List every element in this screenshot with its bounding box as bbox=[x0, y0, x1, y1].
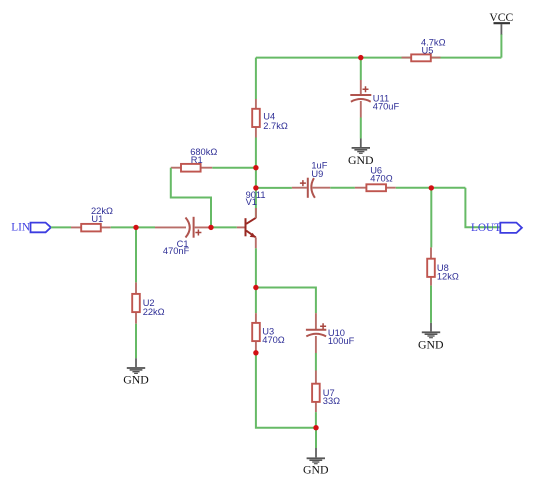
svg-text:VCC: VCC bbox=[489, 11, 513, 24]
label U7 values bbox=[323, 388, 340, 406]
capacitor U9 bbox=[292, 178, 330, 198]
label V1 values bbox=[246, 190, 266, 207]
svg-text:GND: GND bbox=[303, 463, 329, 477]
label U2 values bbox=[143, 298, 165, 317]
power VCC bbox=[489, 11, 513, 34]
resistor U8 bbox=[427, 247, 435, 285]
wire emitter to U10 branch bbox=[256, 288, 316, 314]
svg-text:LIN: LIN bbox=[11, 222, 30, 234]
wire U11 lower bbox=[360, 118, 362, 139]
junction R1 right bbox=[253, 165, 258, 170]
capacitor U11 bbox=[350, 80, 371, 118]
svg-text:470nF: 470nF bbox=[163, 246, 190, 256]
wire U9 to U6 bbox=[330, 187, 355, 189]
ground under U2 bbox=[123, 358, 149, 386]
wire emitter down bbox=[255, 248, 257, 287]
wire U8 branch bbox=[430, 188, 432, 248]
label U9 values bbox=[311, 160, 327, 179]
wire U10 to U7 bbox=[315, 353, 317, 371]
junction below U3 bbox=[253, 350, 258, 355]
wire R1 right to collector bbox=[212, 167, 256, 169]
wire R1 feedback loop bbox=[171, 168, 211, 228]
ground under U8 bbox=[418, 323, 444, 351]
wire U11 upper bbox=[360, 58, 362, 80]
label U10 values bbox=[328, 328, 355, 346]
junction bottom rail bbox=[313, 425, 318, 430]
label U11 values bbox=[373, 93, 400, 111]
junction emitter split bbox=[253, 285, 258, 290]
resistor U3 bbox=[252, 313, 260, 351]
resistor R1 bbox=[171, 164, 213, 172]
port LOUT bbox=[471, 222, 522, 234]
wire collector to transistor bbox=[255, 138, 257, 219]
svg-text:100uF: 100uF bbox=[328, 336, 355, 346]
label U6 values bbox=[370, 166, 393, 184]
wire to LOUT bbox=[465, 188, 500, 228]
resistor U4 bbox=[252, 99, 260, 138]
svg-text:470Ω: 470Ω bbox=[370, 173, 393, 183]
svg-text:GND: GND bbox=[418, 337, 444, 351]
resistor U2 bbox=[132, 282, 140, 323]
svg-text:V1: V1 bbox=[246, 197, 257, 207]
resistor U7 bbox=[312, 371, 320, 413]
svg-text:U5: U5 bbox=[422, 45, 434, 55]
wire U8 to ground bbox=[430, 286, 432, 323]
wire U1 to C1 bbox=[111, 226, 155, 228]
svg-text:470uF: 470uF bbox=[373, 102, 400, 112]
wire U7 to bottom junction bbox=[315, 412, 317, 428]
wire VCC drop bbox=[500, 34, 502, 58]
transistor V1 9011 bbox=[237, 208, 256, 248]
label U4 values bbox=[263, 111, 288, 130]
svg-text:12kΩ: 12kΩ bbox=[437, 272, 459, 282]
junction C1 out / feedback bbox=[208, 225, 213, 230]
svg-text:2.7kΩ: 2.7kΩ bbox=[263, 121, 288, 131]
wire collector rail bbox=[255, 58, 257, 99]
junction top rail / U11 bbox=[358, 55, 363, 60]
junction output / U8 bbox=[429, 185, 434, 190]
svg-text:U9: U9 bbox=[311, 169, 323, 179]
label C1 values bbox=[163, 239, 190, 256]
wire emitter to U3 bbox=[255, 288, 257, 314]
wire U6 to corner bbox=[396, 187, 466, 189]
wire LIN to U1 bbox=[51, 226, 71, 228]
label U1 values bbox=[91, 206, 113, 224]
label U8 values bbox=[437, 263, 459, 282]
svg-text:R1: R1 bbox=[191, 155, 203, 165]
wire U3 to bottom rail bbox=[256, 353, 316, 428]
ground bottom bbox=[303, 448, 329, 477]
label U3 values bbox=[262, 326, 285, 344]
svg-text:22kΩ: 22kΩ bbox=[143, 307, 165, 317]
ground under U11 bbox=[348, 139, 374, 167]
wire junction to ground bbox=[315, 428, 317, 448]
svg-text:GND: GND bbox=[123, 373, 149, 387]
junction output tap bbox=[253, 185, 258, 190]
resistor U1 bbox=[71, 224, 111, 232]
svg-text:470Ω: 470Ω bbox=[262, 335, 285, 345]
capacitor U10 bbox=[306, 313, 326, 353]
label R1 values bbox=[190, 147, 217, 165]
svg-text:U4: U4 bbox=[263, 111, 275, 121]
label U5 values bbox=[421, 38, 446, 56]
resistor U5 bbox=[402, 54, 441, 61]
wire C1 to base bbox=[211, 226, 237, 228]
svg-text:LOUT: LOUT bbox=[471, 222, 501, 234]
resistor U6 bbox=[355, 184, 396, 191]
wire top rail bbox=[256, 57, 502, 59]
wire U2 branch bbox=[135, 227, 137, 282]
capacitor C1 bbox=[155, 217, 211, 238]
port LIN bbox=[11, 222, 51, 234]
wire U2 to ground bbox=[135, 324, 137, 359]
wire output row bbox=[256, 187, 292, 189]
junction input / U2 bbox=[133, 225, 138, 230]
svg-text:33Ω: 33Ω bbox=[323, 396, 340, 406]
svg-text:U1: U1 bbox=[91, 214, 103, 224]
